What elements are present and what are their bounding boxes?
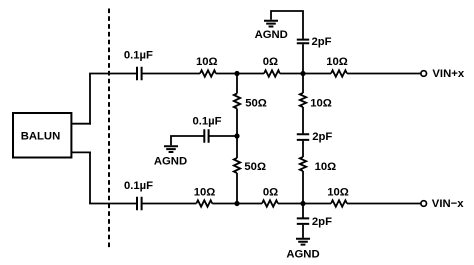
capacitor C6 2pF bottom — [297, 216, 332, 228]
wire bottom rail to VIN−x terminal — [347, 203, 421, 205]
resistor R9 0Ω bottom — [262, 186, 278, 206]
node E junction — [300, 201, 305, 206]
node D junction — [234, 201, 239, 206]
wire top rail R1 to node A — [216, 73, 264, 75]
wire bottom rail R8 to node D — [212, 203, 262, 205]
wire node A down to R4 — [236, 74, 238, 94]
svg-text:0.1µF: 0.1µF — [124, 49, 153, 61]
svg-text:BALUN: BALUN — [21, 131, 61, 143]
resistor R1 10Ω top-left — [196, 56, 218, 77]
wire balun bottom output — [71, 151, 91, 153]
ground AGND top — [255, 21, 288, 42]
resistor R10 10Ω bottom-right — [327, 186, 349, 206]
balun block U1 — [13, 113, 71, 158]
wire C2 top to AGND stub — [271, 11, 303, 39]
node A junction — [234, 71, 239, 76]
wire R6 to C4 — [302, 107, 304, 133]
svg-text:0.1µF: 0.1µF — [192, 115, 221, 127]
capacitor C5 0.1µF bottom — [124, 180, 153, 210]
svg-text:50Ω: 50Ω — [244, 161, 266, 173]
wire R7 to node E — [302, 171, 304, 204]
capacitor C4 2pF middle — [297, 131, 333, 143]
wire node C down to R5 — [236, 136, 238, 158]
wire top rail to VIN+x terminal — [347, 73, 421, 75]
resistor R2 0Ω top — [263, 56, 280, 77]
resistor R4 50Ω upper — [234, 94, 267, 110]
wire top rail left — [89, 73, 136, 75]
wire R5 to node D — [236, 173, 238, 204]
resistor R5 50Ω lower — [234, 158, 266, 173]
svg-text:10Ω: 10Ω — [310, 98, 332, 110]
svg-text:2pF: 2pF — [312, 36, 332, 48]
wire bottom rail R9 to node E — [278, 203, 331, 205]
node C junction — [234, 133, 239, 138]
wire balun top output — [71, 123, 91, 125]
wire bottom rail left — [89, 203, 136, 205]
wire node E down to C6 — [302, 204, 304, 218]
wire riser top — [89, 74, 91, 125]
svg-text:2pF: 2pF — [312, 216, 332, 228]
wire node B up to C2 — [302, 44, 304, 73]
svg-text:AGND: AGND — [255, 29, 288, 41]
svg-text:2pF: 2pF — [312, 131, 332, 143]
wire riser bottom — [89, 152, 91, 204]
resistor R7 10Ω right-lower — [300, 157, 336, 173]
capacitor C1 0.1µF top — [124, 49, 153, 80]
wire bottom rail cap to R8 — [143, 203, 197, 205]
wire node C to C3 — [209, 135, 237, 137]
node B junction — [300, 71, 305, 76]
wire C3 to AGND stub middle — [171, 136, 204, 145]
capacitor C3 0.1µF middle — [192, 115, 221, 142]
svg-text:0Ω: 0Ω — [263, 186, 278, 198]
svg-text:AGND: AGND — [154, 155, 187, 167]
svg-text:10Ω: 10Ω — [196, 56, 218, 68]
wire C4 to R7 — [302, 141, 304, 157]
svg-text:0.1µF: 0.1µF — [124, 180, 153, 192]
svg-text:VIN+x: VIN+x — [432, 68, 464, 80]
svg-text:10Ω: 10Ω — [326, 56, 348, 68]
svg-text:50Ω: 50Ω — [245, 97, 267, 109]
svg-text:10Ω: 10Ω — [315, 161, 337, 173]
resistor R3 10Ω top-right — [326, 56, 348, 77]
terminal VIN+x — [421, 68, 465, 80]
dashed boundary line — [108, 9, 110, 249]
ground AGND middle — [154, 146, 187, 167]
svg-text:0Ω: 0Ω — [263, 56, 278, 68]
terminal VIN−x — [421, 198, 464, 210]
wire C6 to AGND stub bottom — [302, 225, 304, 238]
resistor R6 10Ω right-upper — [300, 93, 332, 110]
svg-text:10Ω: 10Ω — [194, 186, 216, 198]
svg-text:10Ω: 10Ω — [327, 186, 349, 198]
wire top rail R2 to node B — [280, 73, 331, 75]
svg-text:VIN−x: VIN−x — [432, 198, 464, 210]
ground AGND bottom — [286, 239, 319, 261]
svg-text:AGND: AGND — [286, 249, 319, 261]
wire node B down to R6 — [302, 74, 304, 94]
capacitor C2 2pF top — [297, 36, 332, 48]
resistor R8 10Ω bottom-left — [194, 186, 216, 206]
wire R4 to node C — [236, 109, 238, 137]
wire top rail cap to R — [143, 73, 201, 75]
